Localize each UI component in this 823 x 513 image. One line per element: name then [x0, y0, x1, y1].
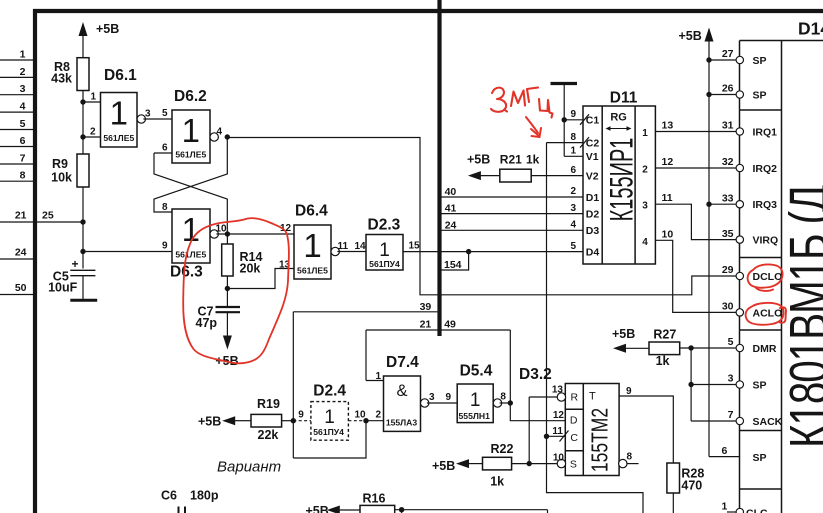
svg-text:DCLO: DCLO: [753, 271, 783, 283]
bubble D3.2 S input: [557, 459, 565, 467]
svg-text:6: 6: [20, 135, 26, 147]
gate D5.4 inverter 555LN1: [457, 384, 493, 423]
svg-text:К155ИР1: К155ИР1: [604, 138, 640, 222]
svg-text:Вариант: Вариант: [217, 459, 281, 476]
wire D7.4 to D5.4: [427, 402, 457, 404]
svg-text:1: 1: [376, 371, 382, 382]
junction node 25 line: [80, 219, 85, 224]
junction node D5.4 output: [508, 400, 513, 405]
junction node D7.4 pin2: [363, 418, 368, 423]
connector stub line 21 / node 25: [0, 221, 83, 223]
svg-text:R21: R21: [500, 153, 522, 167]
svg-text:D6.2: D6.2: [174, 88, 207, 105]
svg-text:D14: D14: [798, 19, 823, 39]
resistor R9: [77, 154, 89, 187]
red annotation 3MHz handwriting: [491, 88, 553, 118]
svg-text:5: 5: [570, 241, 576, 252]
svg-text:+: +: [72, 257, 79, 271]
svg-text:1: 1: [182, 112, 200, 149]
svg-text:41: 41: [445, 203, 457, 215]
svg-text:40: 40: [445, 186, 457, 198]
svg-text:DMR: DMR: [753, 343, 777, 355]
svg-text:ACLO: ACLO: [753, 307, 783, 319]
junction node DMR/SP/SACK: [688, 345, 693, 350]
svg-text:9: 9: [570, 109, 576, 120]
RG double arrow: [609, 128, 629, 130]
svg-text:+5B: +5B: [306, 504, 329, 513]
wire D3.2 C pin: [547, 435, 566, 437]
svg-text:SP: SP: [753, 380, 767, 392]
svg-text:14: 14: [355, 241, 367, 252]
wire C2 stub: [547, 142, 584, 144]
svg-text:+5B: +5B: [96, 22, 119, 36]
D14 pin 1 CLC: [727, 511, 736, 513]
wire net DCLO from D6.2 output: [227, 138, 736, 295]
junction node R22 / S,R of D3.2: [527, 461, 532, 466]
connector stub line 2: [0, 76, 33, 78]
svg-text:4: 4: [570, 220, 576, 231]
svg-text:+5B: +5B: [432, 459, 455, 473]
gate D6.4 inverter 561LE5: [294, 225, 331, 279]
svg-text:555ЛН1: 555ЛН1: [459, 411, 491, 421]
svg-text:30: 30: [722, 301, 734, 313]
wire IRQ3 pull-up: [709, 203, 736, 205]
svg-text:1: 1: [642, 128, 648, 139]
wire R14 bottom: [226, 276, 228, 306]
D14 pin 35 VIRQ: [736, 236, 743, 243]
connector stub line 3: [0, 94, 33, 96]
wire D7.4 pin 1: [366, 380, 384, 382]
wire net 39 bottom detour to D7.4 pin2: [293, 421, 366, 458]
svg-text:1: 1: [110, 95, 128, 132]
wire R28 bottom: [672, 493, 674, 513]
wire cross-coupling from D6.2 output down: [154, 137, 227, 212]
svg-text:1: 1: [470, 390, 481, 411]
wire C7 to +5B arrow: [226, 312, 228, 336]
gate D6.2 inverter 561LE5: [172, 110, 210, 163]
svg-text:&: &: [396, 382, 407, 400]
svg-text:8: 8: [20, 170, 26, 182]
wire R9 to C5: [82, 187, 84, 269]
D14 pin 27 SP: [736, 56, 743, 63]
svg-text:11: 11: [552, 426, 563, 437]
wire D6.4 to D2.3: [337, 251, 366, 253]
junction node pin2 D6.1: [80, 134, 85, 139]
svg-text:21: 21: [420, 319, 432, 331]
svg-text:5: 5: [162, 108, 168, 119]
wire D6.1 pin 2: [83, 136, 101, 138]
wire D11 out3 to VIRQ: [655, 204, 736, 239]
connector stub line 1: [0, 59, 33, 61]
svg-text:561ЛЕ5: 561ЛЕ5: [297, 266, 328, 276]
svg-text:2: 2: [570, 186, 576, 197]
svg-text:11: 11: [338, 241, 349, 252]
svg-text:47p: 47p: [196, 316, 218, 330]
svg-text:V2: V2: [586, 170, 599, 182]
svg-text:155ТМ2: 155ТМ2: [588, 408, 613, 472]
D14 pin 7 SACK: [736, 417, 743, 424]
svg-text:D2.3: D2.3: [368, 217, 401, 234]
junction node D6.3 output: [225, 231, 230, 236]
wire cross-coupling from pin6 down: [154, 153, 227, 234]
wire 154 jog to bus: [442, 252, 469, 270]
wire D6.3 pin 9: [83, 251, 172, 253]
connector stub line 5: [0, 129, 33, 131]
svg-text:50: 50: [15, 282, 27, 294]
svg-text:8: 8: [162, 202, 168, 213]
wire D11 D1 net 40: [442, 196, 584, 198]
antenna T-bar clock stub: [551, 82, 578, 85]
dashed stub D2.4 pin 10: [348, 420, 366, 422]
D14 pin 29 DCLO: [736, 272, 743, 279]
connector stub line 24: [0, 258, 33, 260]
svg-text:1: 1: [303, 227, 321, 264]
svg-text:D6.1: D6.1: [104, 67, 137, 84]
svg-text:1k: 1k: [656, 354, 670, 368]
svg-text:+5B: +5B: [198, 415, 221, 429]
junction node pin1 D6.1: [80, 99, 85, 104]
power +5B arrow top left: [79, 22, 88, 36]
svg-text:D6.4: D6.4: [295, 203, 328, 220]
red annotation circle around D6.3 R14 C7: [183, 218, 289, 363]
svg-text:24: 24: [445, 219, 457, 231]
svg-text:1: 1: [570, 146, 576, 157]
svg-text:11: 11: [662, 192, 673, 204]
wire net 21/49 vertical to D7.4 pin1: [365, 330, 367, 381]
svg-text:D4: D4: [586, 246, 600, 258]
bubble D3.2 output 8: [619, 459, 627, 467]
svg-text:6: 6: [722, 445, 728, 457]
junction node IRQ3 pull-up: [706, 202, 711, 207]
resistor R22: [483, 457, 512, 470]
resistor R27: [649, 342, 680, 355]
wire D2.3 output net 154 to D11 D4: [403, 251, 583, 253]
svg-text:C: C: [570, 432, 578, 444]
wire D5.4 out down to D3.2 D pin: [510, 403, 565, 421]
svg-text:S: S: [570, 458, 577, 470]
svg-text:1k: 1k: [490, 475, 504, 489]
svg-text:+5B: +5B: [612, 327, 635, 341]
wire SP6: [709, 456, 740, 458]
resistor R21: [500, 169, 531, 182]
svg-text:13: 13: [662, 120, 674, 132]
svg-text:D11: D11: [610, 90, 638, 107]
wire D11 out2 to IRQ2: [655, 167, 736, 169]
D14 pin 32 IRQ2: [736, 164, 743, 171]
junction node SP26: [706, 92, 711, 97]
svg-text:29: 29: [722, 264, 734, 276]
svg-text:10: 10: [662, 228, 674, 240]
svg-text:27: 27: [722, 48, 734, 60]
svg-text:7: 7: [728, 409, 734, 421]
processor D14 K1801VM1B: [740, 40, 823, 42]
svg-text:561ПУ4: 561ПУ4: [369, 259, 400, 269]
wire D7.4 pin 2: [366, 420, 384, 422]
svg-text:180p: 180p: [190, 489, 219, 503]
svg-text:24: 24: [15, 247, 27, 259]
svg-text:D5.4: D5.4: [460, 363, 493, 380]
svg-text:D2: D2: [586, 208, 600, 220]
bubble D3.2 R input: [557, 393, 565, 401]
ground bar below C5: [70, 299, 97, 302]
svg-text:21: 21: [15, 210, 27, 222]
wire to D6.4 pin 13: [227, 269, 294, 289]
svg-text:561ПУ4: 561ПУ4: [313, 427, 344, 437]
svg-text:5: 5: [20, 118, 26, 130]
wire D6.2 pin6 stub: [154, 152, 172, 154]
red annotation arrow to C2: [526, 117, 541, 137]
flip-flop D3.2 155TM2: [565, 384, 619, 476]
wire net 21/49 vertical to D5.4 output: [509, 330, 511, 403]
D14 pin 5 DMR: [736, 344, 743, 351]
resistor R14: [226, 234, 228, 244]
svg-text:9: 9: [162, 241, 168, 252]
svg-text:470: 470: [681, 479, 702, 493]
junction node D3.2 C pin: [544, 434, 549, 439]
svg-text:IRQ1: IRQ1: [753, 127, 778, 139]
wire net 3MHz C2 vertical: [547, 143, 644, 513]
svg-text:R22: R22: [491, 442, 514, 456]
wire C1: [564, 119, 583, 121]
svg-text:R9: R9: [52, 157, 68, 171]
wire V1 tie: [563, 120, 565, 157]
D14 pin 26 SP: [736, 91, 743, 98]
connector stub line 8: [0, 180, 33, 182]
bubble output D6.2: [210, 133, 218, 141]
svg-text:9: 9: [298, 410, 304, 421]
wire D6.1 pin 1: [83, 101, 101, 103]
gate D7.4 NAND 155LA3: [384, 376, 421, 431]
svg-text:39: 39: [420, 301, 432, 313]
svg-text:C6: C6: [161, 489, 177, 503]
wire R22 to junction: [512, 463, 530, 465]
connector stub line 6: [0, 146, 33, 148]
svg-text:2: 2: [20, 66, 26, 78]
svg-text:561ЛЕ5: 561ЛЕ5: [103, 133, 134, 143]
wire to SP pin 3: [691, 384, 736, 386]
power +5B arrow top right: [705, 28, 714, 42]
svg-text:8: 8: [500, 392, 506, 403]
svg-text:D2.4: D2.4: [313, 383, 346, 400]
bus vertical thick line: [437, 0, 441, 336]
wire R19 to junction: [282, 420, 294, 422]
svg-text:13: 13: [552, 385, 564, 396]
wire R16 right: [395, 509, 548, 511]
svg-text:9: 9: [446, 392, 452, 403]
svg-text:3: 3: [728, 373, 734, 385]
svg-text:2: 2: [90, 127, 96, 138]
svg-text:D: D: [570, 415, 578, 427]
svg-text:R19: R19: [257, 397, 280, 411]
svg-text:1: 1: [20, 49, 26, 61]
svg-text:6: 6: [162, 143, 168, 154]
svg-text:7: 7: [20, 153, 26, 165]
capacitor C7: [216, 306, 241, 308]
svg-text:26: 26: [722, 83, 734, 95]
bubble output D5.4: [493, 399, 501, 407]
wire D11 D3 net 24: [442, 229, 584, 231]
svg-text:R16: R16: [363, 492, 386, 506]
svg-text:33: 33: [722, 192, 734, 204]
bubble output D6.3: [210, 230, 218, 238]
resistor R16: [360, 505, 395, 513]
svg-text:3: 3: [145, 109, 151, 120]
svg-text:1: 1: [91, 92, 97, 103]
wire net 39 vertical down to R19 junction: [292, 312, 294, 458]
svg-text:D7.4: D7.4: [386, 354, 419, 371]
wire net 39 from bus: [293, 311, 437, 313]
svg-text:561ЛЕ5: 561ЛЕ5: [175, 150, 206, 160]
gate D6.3 inverter 561LE5: [172, 209, 210, 263]
svg-text:6: 6: [570, 165, 576, 176]
svg-text:3: 3: [429, 392, 435, 403]
wire D6.1 pin3 to D6.2 pin5: [143, 118, 172, 120]
connector stub line 50: [0, 294, 33, 296]
D14 pin 30 ACLO: [736, 309, 743, 316]
svg-text:31: 31: [722, 120, 734, 132]
connector stub line 7: [0, 163, 33, 165]
svg-text:T: T: [589, 391, 596, 403]
junction node R14/C7/pin13: [225, 286, 230, 291]
dashed stub D2.4 pin 9: [293, 420, 311, 422]
svg-text:D3: D3: [586, 225, 600, 237]
wire R21 to V2: [531, 175, 583, 177]
wire R8 to R9 rail: [82, 91, 84, 155]
wire junction up to R pin: [528, 397, 530, 464]
svg-text:IRQ3: IRQ3: [753, 199, 778, 211]
svg-text:2: 2: [376, 410, 382, 421]
svg-text:49: 49: [444, 319, 456, 331]
svg-text:3: 3: [642, 201, 648, 212]
sheet border top: [33, 9, 823, 13]
wire R27 to DMR: [680, 347, 737, 349]
svg-text:1k: 1k: [526, 153, 540, 167]
resistor R28: [667, 463, 680, 493]
svg-text:2: 2: [642, 165, 648, 176]
wire net 21/49 crossing bus: [366, 329, 510, 331]
svg-text:561ЛЕ5: 561ЛЕ5: [175, 250, 206, 260]
svg-text:10: 10: [553, 453, 565, 464]
svg-text:+5B: +5B: [679, 29, 702, 43]
power +5B arrow down (C7): [223, 336, 232, 350]
sheet border left: [33, 9, 37, 513]
svg-text:D1: D1: [586, 192, 600, 204]
wire +5B rail vertical: [708, 41, 710, 457]
wire to D3.2 R pin: [529, 396, 558, 398]
svg-text:RG: RG: [610, 112, 627, 124]
wire SP27: [709, 59, 736, 61]
svg-text:R: R: [571, 392, 579, 404]
red annotation circle around DCLO: [748, 264, 783, 290]
junction node R19 / D2.4 pin9: [291, 418, 296, 423]
svg-text:SP: SP: [753, 452, 767, 464]
svg-text:VIRQ: VIRQ: [753, 235, 779, 247]
svg-text:4: 4: [20, 101, 26, 113]
bubble output D6.1: [137, 115, 145, 123]
svg-text:V1: V1: [586, 151, 599, 163]
wire D11 out4 to ACLO: [655, 240, 736, 312]
resistor R8: [77, 58, 89, 91]
svg-text:SACK: SACK: [753, 416, 783, 428]
wire D5.4 output to junction: [500, 402, 511, 404]
svg-text:D6.3: D6.3: [170, 264, 203, 281]
junction node C1/V1: [562, 117, 567, 122]
svg-text:12: 12: [662, 156, 674, 168]
wire SP26: [709, 94, 736, 96]
svg-text:CLC: CLC: [746, 508, 768, 513]
junction node SP27: [706, 57, 711, 62]
svg-text:10k: 10k: [51, 171, 72, 185]
junction node net154: [466, 249, 471, 254]
svg-text:SP: SP: [753, 90, 767, 102]
svg-text:9: 9: [626, 386, 632, 397]
svg-text:8: 8: [570, 132, 576, 143]
junction node SP3: [688, 382, 693, 387]
svg-text:IRQ2: IRQ2: [753, 163, 778, 175]
junction node D6.2 output: [225, 134, 230, 139]
junction node D6.3 pin9 / C5: [80, 249, 85, 254]
resistor R19: [251, 414, 282, 427]
svg-text:4: 4: [217, 127, 223, 138]
svg-text:8: 8: [627, 452, 633, 463]
svg-text:32: 32: [722, 156, 734, 168]
bubble output D7.4: [421, 399, 429, 407]
svg-text:5: 5: [728, 336, 734, 348]
op-amp U D6.1 inverter 561LE5: [101, 93, 138, 148]
gate D2.4 buffer 561PU4 (dashed variant): [311, 402, 349, 441]
wire D6.3 out to D6.4 pin 12: [216, 233, 294, 235]
register D11 K155IR1: [583, 106, 655, 264]
svg-text:+5B: +5B: [467, 153, 490, 167]
wire D3.2 output 9 to R28: [619, 396, 673, 463]
svg-text:1: 1: [722, 501, 728, 513]
svg-text:D3.2: D3.2: [519, 366, 552, 383]
red annotation circle around ACLO: [746, 303, 786, 325]
svg-text:SP: SP: [753, 55, 767, 67]
bubble output D6.4: [331, 247, 339, 255]
svg-text:10uF: 10uF: [48, 281, 78, 295]
wire to SACK pin 7: [691, 420, 736, 422]
svg-text:1: 1: [379, 240, 390, 261]
connector stub line 4: [0, 111, 33, 113]
svg-text:20k: 20k: [240, 262, 261, 276]
D14 pin 3 SP: [736, 381, 743, 388]
svg-text:3: 3: [570, 203, 576, 214]
wire down to SP pin 3: [690, 348, 692, 421]
svg-text:43k: 43k: [51, 72, 72, 86]
svg-text:3: 3: [20, 83, 26, 95]
svg-text:R27: R27: [653, 328, 676, 342]
svg-text:1: 1: [324, 407, 335, 428]
svg-text:22k: 22k: [258, 428, 279, 442]
svg-text:12: 12: [553, 410, 565, 421]
D14 pin 33 IRQ3: [736, 201, 743, 208]
svg-text:25: 25: [42, 210, 54, 222]
wire D11 D2 net 41: [442, 213, 584, 215]
junction node R16: [399, 507, 404, 512]
wire D11 out1 to IRQ1: [655, 131, 736, 133]
svg-text:35: 35: [722, 228, 734, 240]
gate D2.3 buffer 561PU4: [366, 235, 403, 271]
svg-text:154: 154: [444, 259, 462, 271]
wire to D3.2 S pin: [529, 463, 558, 465]
svg-text:4: 4: [642, 237, 648, 248]
D14 pin 31 IRQ1: [736, 128, 743, 135]
svg-text:15: 15: [409, 241, 421, 252]
svg-text:155ЛА3: 155ЛА3: [386, 418, 418, 428]
